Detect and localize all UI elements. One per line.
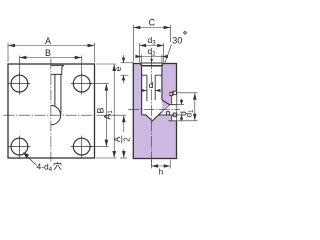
dim d (small, inside bore) <box>142 90 147 92</box>
dim A (top width) <box>7 43 9 62</box>
vertical centerline of bore <box>151 59 153 167</box>
dim d (right side, port) <box>170 104 184 106</box>
bolt hole bottom-left <box>9 136 31 158</box>
horizontal port edges <box>170 104 177 106</box>
seat bore white (d1) <box>172 93 177 121</box>
svg-text:d: d <box>149 80 154 90</box>
svg-text:30: 30 <box>172 36 182 46</box>
dim e (left of right view) <box>121 62 135 64</box>
dim d3 <box>139 43 141 62</box>
svg-text:C: C <box>149 18 156 28</box>
bolt hole bottom-right <box>71 136 93 158</box>
svg-text:B: B <box>96 107 106 113</box>
white void: top bore + port <box>140 63 177 121</box>
purple wedge between cone edges <box>162 100 170 112</box>
dim d1 (right side) <box>178 92 198 94</box>
top port boss (half profile, right of centerline) <box>51 65 64 115</box>
horizontal centerline of port <box>128 109 180 111</box>
center semicircle (drill cone projection) <box>51 105 61 124</box>
vertical centerline <box>50 59 52 162</box>
leader 4-d4穴 <box>24 153 37 166</box>
svg-text:A: A <box>113 136 122 142</box>
port upper cone edge <box>162 100 170 105</box>
small down arrow inside bore (e depth) <box>150 59 153 63</box>
dim d2 <box>141 55 143 66</box>
horizontal centerline (port axis) <box>4 114 100 116</box>
drill cone wedge of vertical bore <box>146 105 170 121</box>
svg-text:2: 2 <box>122 137 131 142</box>
dim B (top, bolt spacing) <box>18 56 20 75</box>
dim h (bottom) <box>151 160 153 169</box>
bore edges <box>140 63 164 115</box>
dim A1 (right side, full height) <box>96 63 117 65</box>
dim A/2 (axis to bottom) <box>100 114 127 116</box>
o-ring notches on right face <box>173 91 176 94</box>
svg-text:h: h <box>159 168 163 177</box>
svg-text:A: A <box>45 36 51 46</box>
svg-text:B: B <box>45 48 51 58</box>
svg-text:e: e <box>113 66 123 71</box>
dim B (right side, vertical bolt spacing) <box>90 83 109 85</box>
plate outline <box>8 64 95 158</box>
dim C <box>132 25 134 62</box>
bolt hole top-left <box>9 73 31 95</box>
bolt hole top-right <box>71 73 93 95</box>
purple block <box>133 64 176 159</box>
